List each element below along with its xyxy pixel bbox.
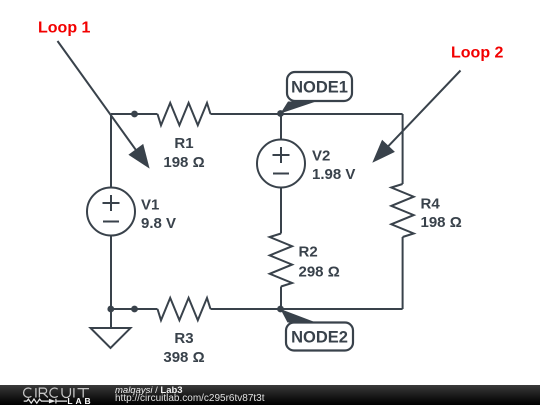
wire right upper bbox=[402, 114, 404, 184]
svg-text:9.8 V: 9.8 V bbox=[141, 215, 176, 232]
logo letter I bbox=[35, 388, 37, 397]
logo diode bar + wire bbox=[56, 398, 67, 403]
wire middle upper bbox=[280, 114, 282, 140]
V2 plus bbox=[273, 147, 290, 163]
svg-text:Loop 1: Loop 1 bbox=[38, 20, 91, 37]
footer title bbox=[115, 386, 183, 396]
resistor R2 bbox=[270, 234, 292, 287]
resistor R4 bbox=[391, 184, 413, 237]
annotation Loop 1 arrowhead bbox=[128, 144, 149, 169]
svg-text:R4: R4 bbox=[421, 195, 441, 212]
wire top right segment bbox=[211, 113, 403, 115]
svg-text:NODE2: NODE2 bbox=[291, 329, 348, 347]
voltage source V1 bbox=[87, 188, 135, 236]
svg-text:R3: R3 bbox=[174, 330, 193, 347]
footer url bbox=[115, 394, 265, 404]
ground wire stub bbox=[110, 309, 112, 328]
NODE1 callout wedge bbox=[280, 102, 316, 114]
node NODE2 dot bbox=[277, 306, 284, 313]
logo resistor squiggle bbox=[24, 399, 49, 403]
svg-text:LAB: LAB bbox=[67, 395, 93, 405]
node junction dot bottom bbox=[131, 306, 138, 313]
resistor R1 bbox=[158, 103, 211, 125]
logo diode triangle bbox=[49, 398, 56, 403]
V2 minus bbox=[273, 173, 289, 175]
svg-text:398 Ω: 398 Ω bbox=[163, 349, 204, 366]
node junction dot top bbox=[131, 111, 138, 118]
wire bottom left segment bbox=[111, 308, 158, 310]
wire left upper bbox=[110, 114, 112, 188]
svg-text:Loop 2: Loop 2 bbox=[451, 45, 504, 62]
V1 plus bbox=[103, 195, 120, 211]
NODE1 label box bbox=[287, 72, 352, 101]
wire bottom right segment bbox=[211, 308, 403, 310]
NODE2 label box bbox=[286, 323, 353, 351]
logo letter C bbox=[24, 388, 32, 397]
wire top left segment bbox=[111, 113, 158, 115]
logo letter U bbox=[62, 388, 70, 397]
resistor R3 bbox=[158, 298, 211, 320]
footer bar bbox=[0, 385, 540, 405]
node junction dot bottom corner bbox=[107, 306, 114, 313]
annotation Loop 1 arrow bbox=[58, 41, 138, 152]
logo letter I bbox=[73, 388, 75, 397]
wire left lower bbox=[110, 236, 112, 310]
svg-text:V1: V1 bbox=[141, 196, 159, 213]
V1 minus bbox=[103, 221, 119, 223]
svg-text:R2: R2 bbox=[299, 244, 318, 261]
wire middle lower bbox=[280, 287, 282, 310]
svg-text:198 Ω: 198 Ω bbox=[163, 154, 204, 171]
CircuitLab logo bbox=[0, 385, 110, 405]
svg-text:298 Ω: 298 Ω bbox=[299, 263, 340, 280]
voltage source V2 bbox=[257, 140, 305, 188]
wire right lower bbox=[402, 237, 404, 309]
ground bbox=[91, 328, 131, 348]
wire middle mid bbox=[280, 188, 282, 234]
annotation Loop 2 arrowhead bbox=[372, 140, 395, 163]
svg-text:R1: R1 bbox=[174, 135, 193, 152]
svg-text:198 Ω: 198 Ω bbox=[421, 214, 462, 231]
svg-text:V2: V2 bbox=[312, 147, 330, 164]
node NODE1 dot bbox=[277, 110, 284, 117]
svg-text:NODE1: NODE1 bbox=[291, 79, 348, 97]
logo letter R bbox=[39, 388, 48, 397]
NODE2 callout wedge bbox=[280, 309, 316, 323]
logo letter T bbox=[78, 388, 90, 397]
logo letter C bbox=[50, 388, 58, 397]
svg-text:1.98 V: 1.98 V bbox=[312, 166, 355, 183]
annotation Loop 2 arrow bbox=[387, 71, 461, 148]
